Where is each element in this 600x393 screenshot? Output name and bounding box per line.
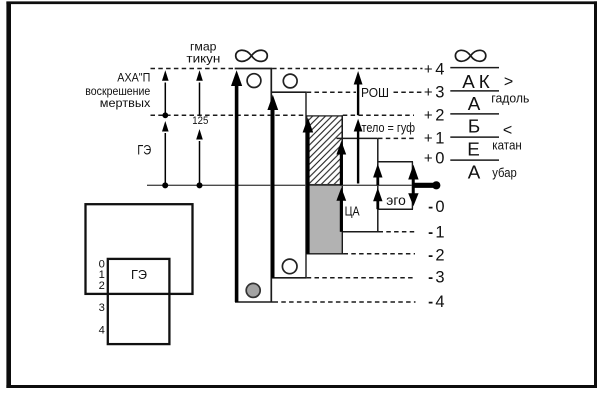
svg-text:Е: Е xyxy=(467,138,480,159)
svg-text:<: < xyxy=(503,122,512,139)
svg-text:3: 3 xyxy=(435,83,444,101)
svg-text:125: 125 xyxy=(192,115,208,127)
svg-text:1: 1 xyxy=(435,224,444,242)
svg-text:3: 3 xyxy=(99,302,105,314)
svg-text:Б: Б xyxy=(468,116,480,137)
svg-text:убар: убар xyxy=(492,165,517,180)
svg-text:ЦА: ЦА xyxy=(345,204,360,219)
svg-text:+: + xyxy=(424,107,433,124)
svg-text:катан: катан xyxy=(492,138,522,153)
svg-text:А: А xyxy=(468,161,481,182)
svg-text:4: 4 xyxy=(435,61,444,79)
svg-text:>: > xyxy=(504,73,513,90)
svg-text:тикун: тикун xyxy=(186,51,220,65)
svg-text:ГЭ: ГЭ xyxy=(131,267,147,282)
svg-text:-: - xyxy=(428,198,433,215)
svg-text:-: - xyxy=(428,269,433,286)
svg-text:3: 3 xyxy=(435,269,444,287)
svg-text:2: 2 xyxy=(435,106,444,124)
svg-text:0: 0 xyxy=(435,198,444,216)
svg-text:2: 2 xyxy=(99,280,105,292)
svg-text:ГЭ: ГЭ xyxy=(137,142,151,157)
svg-text:+: + xyxy=(424,150,433,167)
svg-text:гадоль: гадоль xyxy=(491,90,529,105)
svg-text:+: + xyxy=(424,61,433,78)
svg-text:АХА"П: АХА"П xyxy=(117,72,150,85)
svg-text:1: 1 xyxy=(435,130,444,148)
svg-text:мертвых: мертвых xyxy=(100,97,151,110)
svg-text:-: - xyxy=(428,294,433,311)
svg-text:-: - xyxy=(428,224,433,241)
svg-text:0: 0 xyxy=(435,150,444,168)
svg-text:4: 4 xyxy=(99,324,105,336)
svg-text:А: А xyxy=(468,93,481,114)
svg-text:+: + xyxy=(424,130,433,147)
svg-text:+: + xyxy=(424,84,433,101)
svg-text:эго: эго xyxy=(386,193,406,208)
svg-text:-: - xyxy=(428,247,433,264)
svg-text:РОШ: РОШ xyxy=(361,85,389,100)
svg-text:4: 4 xyxy=(435,293,444,311)
svg-text:тело = гуф: тело = гуф xyxy=(362,121,416,135)
svg-text:2: 2 xyxy=(435,246,444,264)
